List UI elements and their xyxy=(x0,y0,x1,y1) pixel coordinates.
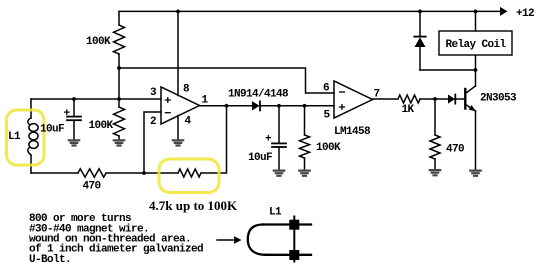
svg-text:+: + xyxy=(64,108,71,120)
resistor R3 100K (detector filter) xyxy=(304,106,306,135)
wire top +12 rail xyxy=(119,10,501,12)
op-amp U1b minus input mark xyxy=(340,91,345,93)
wire pin 4 to ground xyxy=(177,116,179,141)
node R8 tap xyxy=(433,97,437,101)
ground below R3 xyxy=(299,171,309,176)
node R3 top xyxy=(303,104,307,108)
svg-text:100K: 100K xyxy=(89,120,114,132)
wire feedback resistor to op-amp output xyxy=(201,106,227,173)
ground below Q1 emitter xyxy=(470,171,480,176)
transistor Q1 2N3053 xyxy=(464,89,466,109)
op-amp U1a plus input mark xyxy=(165,98,170,103)
U-bolt nut bottom xyxy=(289,250,299,260)
ground below R8 xyxy=(430,170,440,175)
diode D2 xyxy=(448,95,455,104)
annotation arrow to U-bolt xyxy=(217,239,234,241)
node output feedback tap xyxy=(225,104,229,108)
node flyback diode on +12 rail xyxy=(418,10,422,14)
node relay bottom xyxy=(474,68,478,72)
ground symbols xyxy=(69,140,481,176)
svg-text:8: 8 xyxy=(183,84,190,96)
ground below R2 xyxy=(114,140,124,145)
wire D2 to base xyxy=(455,98,465,100)
svg-text:2N3053: 2N3053 xyxy=(480,93,517,105)
wire L1/C1/bias to op-amp pin 3 xyxy=(31,98,161,100)
wire op-amp1 output to diode xyxy=(200,105,253,107)
relay coil box xyxy=(439,31,512,55)
svg-text:10uF: 10uF xyxy=(40,124,64,136)
node +12 arrow xyxy=(500,7,508,16)
node C1 top xyxy=(72,97,76,101)
wire collector up to relay xyxy=(475,55,477,86)
svg-text:U-Bolt.: U-Bolt. xyxy=(29,254,71,266)
wire relay top to +12 rail xyxy=(475,11,477,31)
svg-text:470: 470 xyxy=(446,144,464,156)
svg-text:1: 1 xyxy=(202,95,209,107)
svg-text:100K: 100K xyxy=(316,142,341,154)
highlight L1 (yellow) xyxy=(7,110,45,165)
svg-text:+12: +12 xyxy=(516,8,534,20)
svg-text:4: 4 xyxy=(185,116,192,128)
op-amp U1b plus input mark xyxy=(340,105,345,110)
wire pin 2 to feedback node xyxy=(144,112,161,173)
svg-text:6: 6 xyxy=(323,83,329,95)
svg-text:100K: 100K xyxy=(86,36,111,48)
svg-text:4.7k up to 100K: 4.7k up to 100K xyxy=(149,198,238,213)
node C2 top xyxy=(277,104,281,108)
svg-text:L1: L1 xyxy=(269,207,282,219)
U-bolt drawing L1 xyxy=(248,217,311,262)
node bias on pin3 rail xyxy=(117,97,121,101)
node pin8 tap on +12 rail xyxy=(176,10,180,14)
wire bias node to pin 6 xyxy=(119,68,334,93)
resistor R8 470 (base pulldown) xyxy=(434,99,436,135)
wire 1K to diode D2 xyxy=(420,98,448,100)
svg-text:470: 470 xyxy=(83,181,101,193)
inductor L1 xyxy=(30,99,32,118)
capacitor C1 10uF xyxy=(73,99,75,116)
svg-text:2: 2 xyxy=(150,116,156,128)
wire flyback diode to relay bottom node xyxy=(420,69,476,71)
svg-text:1N914/4148: 1N914/4148 xyxy=(228,89,289,101)
wire diode to pin 5 xyxy=(260,105,334,107)
U-bolt nut top xyxy=(289,220,299,230)
ground below C2 xyxy=(274,171,284,176)
svg-text:7: 7 xyxy=(374,89,380,101)
wire emitter to ground xyxy=(475,111,477,170)
wire bottom left rail xyxy=(31,172,78,174)
svg-text:Relay Coil: Relay Coil xyxy=(446,39,507,51)
resistor R6 feedback 4.7k-100K xyxy=(178,169,201,177)
resistor R7 1K xyxy=(398,95,420,103)
resistor R2 100K (bias node to ground) xyxy=(118,99,120,107)
wire bias node down to pin3 rail xyxy=(118,68,120,99)
svg-text:+: + xyxy=(265,134,272,146)
node bias divider xyxy=(117,66,121,70)
node feedback bottom xyxy=(142,171,146,175)
svg-text:LM1458: LM1458 xyxy=(334,126,371,138)
wire pin 8 from +12 rail xyxy=(177,11,179,95)
svg-text:5: 5 xyxy=(324,110,331,122)
op-amp U1b triangle xyxy=(334,81,373,118)
op-amp U1a minus input mark xyxy=(165,112,170,114)
resistor R5 470 (horizontal) xyxy=(78,169,106,177)
node relay top on +12 rail xyxy=(474,10,478,14)
ground below op-amp pin 4 xyxy=(173,140,183,145)
op-amp U1a triangle xyxy=(161,87,200,124)
ground below C1 xyxy=(69,140,79,145)
diode D1 1N914/4148 xyxy=(252,101,260,110)
wire op-amp2 output pin 7 to 1K xyxy=(373,98,399,100)
capacitor C2 10uF xyxy=(278,106,280,143)
resistor R1 100K (top, from +12 rail to bias node) xyxy=(118,11,120,25)
svg-text:10uF: 10uF xyxy=(248,152,272,164)
svg-text:1K: 1K xyxy=(402,104,415,116)
svg-text:3: 3 xyxy=(150,87,157,99)
diode D3 flyback xyxy=(419,11,421,36)
svg-text:L1: L1 xyxy=(8,131,21,143)
wire 470 to feedback node xyxy=(106,172,178,174)
highlight feedback resistor (yellow) xyxy=(159,159,219,193)
